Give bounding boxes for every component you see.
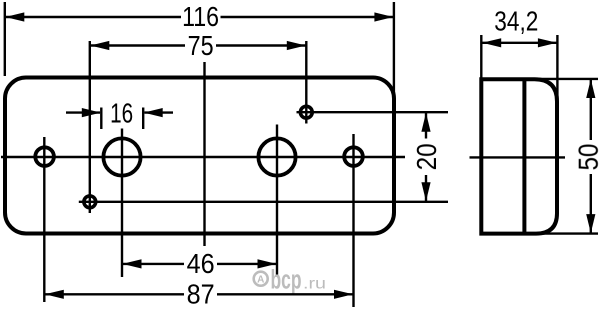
centerline through H4 / 87 right extension: [352, 134, 354, 307]
dim 34,2 left extension: [480, 35, 482, 78]
hole H2 big left: [103, 138, 140, 175]
svg-text:34,2: 34,2: [494, 5, 538, 36]
dim 46 arrow right: [258, 259, 277, 268]
dim 87 line: [44, 293, 184, 295]
svg-text:20: 20: [411, 143, 442, 170]
dim 20 arrow up: [421, 113, 430, 132]
dim 87 arrow right: [334, 290, 353, 299]
svg-text:87: 87: [187, 279, 215, 310]
svg-text:.ru: .ru: [303, 276, 326, 293]
dim 50 top extension: [533, 78, 598, 80]
watermark logo ring: [254, 272, 268, 286]
hole H1 left small: [35, 147, 54, 166]
dim 116 arrow left: [5, 12, 24, 21]
dim 75 arrow right: [287, 41, 306, 50]
screw hole S1 top crosshair: [300, 106, 312, 118]
dim 20 line: [425, 112, 427, 138]
dim 50 arrow up: [586, 79, 595, 98]
svg-text:16: 16: [110, 97, 133, 128]
dim 116 line: [5, 16, 181, 18]
dim 75 arrow left: [90, 41, 109, 50]
dim 116 right extension: [393, 2, 395, 96]
svg-text:46: 46: [187, 248, 215, 279]
S2 vertical arm / 75 left extension: [89, 41, 91, 213]
svg-text:bcp: bcp: [271, 265, 302, 295]
svg-text:A: A: [257, 274, 264, 285]
side view lens separation line: [522, 79, 526, 233]
dim 50 line: [590, 79, 592, 141]
dim 34,2 line: [481, 42, 557, 44]
dim 50 bottom extension: [533, 232, 598, 234]
dim 16 right extension: [142, 108, 144, 130]
dim 75 line: [90, 44, 185, 46]
centerline through H3 / 46 right extension: [276, 125, 278, 275]
hole H3 big right: [258, 138, 295, 175]
dim 34,2 arrow left: [482, 38, 501, 47]
screw hole S2 bottom crosshair: [84, 196, 96, 208]
dim 46 arrow left: [123, 259, 142, 268]
dim 16 right leader and arrow: [145, 111, 174, 113]
svg-text:116: 116: [182, 1, 219, 32]
side view outline: [481, 79, 557, 233]
dim 87 arrow left: [45, 290, 64, 299]
front view outline (lamp body): [5, 78, 394, 234]
dim 16 left leader and arrow: [66, 111, 100, 113]
vertical centerline: [203, 62, 205, 246]
dim 16 left extension: [100, 108, 102, 130]
side view centerline: [470, 156, 566, 158]
dim 34,2 arrow right: [538, 38, 557, 47]
centerline through H1 / 87 left extension: [43, 137, 45, 302]
dim 46 line: [122, 263, 184, 265]
dim 50 arrow down: [586, 214, 595, 233]
dim 20 arrow down: [421, 182, 430, 201]
svg-text:50: 50: [573, 144, 600, 171]
horizontal centerline: [1, 156, 405, 158]
svg-text:75: 75: [188, 30, 214, 61]
S2 horizontal arm / 20 bottom extension: [79, 201, 448, 203]
centerline through H2 / 46 left extension: [121, 129, 123, 278]
hole H4 right small: [344, 147, 363, 166]
dim 116 left extension: [4, 2, 6, 76]
S1 horizontal arm / 20 top extension: [297, 111, 449, 113]
dim 34,2 right extension: [556, 35, 558, 101]
S1 vertical arm / 75 right extension: [305, 41, 307, 124]
dim 116 arrow right: [374, 12, 393, 21]
